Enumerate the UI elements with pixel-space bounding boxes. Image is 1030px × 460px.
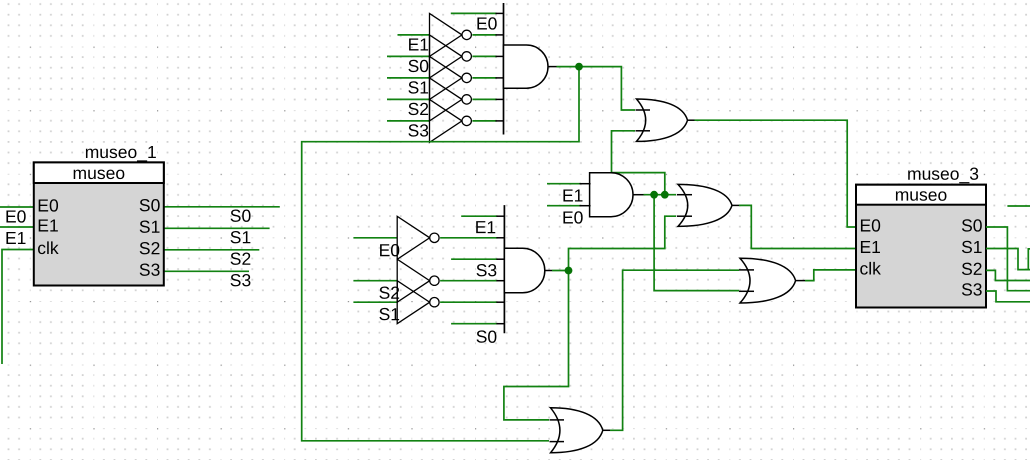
wire J1 to OR1 top input — [579, 67, 635, 110]
wire inverter output to U1 at y=34.9 — [472, 34, 496, 36]
wire S2 from museo_1 — [164, 249, 259, 251]
svg-text:S3: S3 — [408, 121, 429, 141]
wire S0 from museo_3 — [986, 227, 1030, 291]
svg-text:S3: S3 — [476, 260, 497, 280]
wire inverter N7 output to U2 — [440, 280, 497, 282]
inverter N1 — [430, 13, 463, 56]
svg-text:E0: E0 — [859, 216, 881, 236]
svg-text:E1: E1 — [408, 35, 429, 55]
svg-text:E1: E1 — [562, 186, 583, 206]
svg-text:S3: S3 — [961, 279, 982, 299]
svg-text:S2: S2 — [961, 259, 982, 279]
wire J1 down-left-down to OR4 bottom input — [302, 67, 579, 441]
and-gate U2 (6-input) — [496, 205, 552, 333]
wire S0 from museo_1 — [164, 206, 280, 208]
svg-text:S3: S3 — [139, 260, 160, 280]
wire net at top right edge — [1007, 205, 1030, 207]
wire S0 to inverter N2 — [387, 55, 430, 57]
wire S3 to inverter N5 — [387, 120, 430, 122]
wire junction J2 down to OR3 bottom input — [654, 195, 739, 291]
junction J1 — [575, 63, 583, 71]
wire right edge net down — [1028, 249, 1030, 270]
svg-text:E1: E1 — [475, 217, 496, 237]
wire E0 to inverter N6 — [353, 237, 397, 239]
svg-text:S1: S1 — [230, 227, 251, 247]
wire J5 up to OR2 bottom input — [569, 216, 677, 270]
svg-text:museo: museo — [895, 185, 948, 205]
wire E0 stub to U3 — [547, 205, 581, 207]
svg-text:S0: S0 — [476, 327, 498, 347]
svg-text:clk: clk — [37, 238, 59, 258]
wire S3 from museo_3 — [986, 291, 1030, 302]
wire S0 stub to U2 — [451, 323, 497, 325]
wire U1 output to junction J1 — [557, 66, 580, 68]
svg-text:museo_1: museo_1 — [85, 142, 157, 163]
or-gate OR3 — [739, 258, 805, 303]
wire S3 stub to U2 — [451, 258, 497, 260]
wire inverter output to U1 at y=56.4 — [472, 55, 496, 57]
and-gate U1 (6-input) — [496, 3, 557, 135]
wire J5 down to OR4 top input — [504, 271, 569, 420]
wire clk input to museo_1 — [2, 250, 34, 365]
svg-text:S0: S0 — [139, 195, 161, 215]
wire S3 from museo_1 — [164, 270, 249, 272]
block museo_3 — [856, 164, 986, 308]
inverter N7 — [397, 259, 430, 302]
svg-text:S2: S2 — [139, 238, 160, 258]
svg-text:E0: E0 — [5, 207, 27, 227]
inverter N6 — [397, 216, 430, 259]
wire S2 from museo_3 — [986, 270, 1030, 280]
junction J2 — [650, 191, 658, 199]
svg-text:clk: clk — [859, 259, 881, 279]
wire OR1 bottom input from junction J3 — [612, 131, 665, 195]
inverter N2 — [430, 35, 463, 78]
svg-text:E1: E1 — [5, 228, 26, 248]
svg-text:E0: E0 — [476, 14, 498, 34]
inverter N8 — [397, 281, 430, 324]
wire E1 to inverter N1 — [398, 34, 430, 36]
block museo_1 — [34, 142, 164, 286]
wire E1 input to museo_1 — [0, 226, 34, 228]
wire E0 stub to U1 pin 1 — [451, 12, 497, 14]
wire S1 to inverter N3 — [387, 77, 430, 79]
wire inverter output to U1 at y=77.9 — [472, 77, 496, 79]
wire S2 to inverter N4 — [387, 98, 430, 100]
wire inverter output to U1 at y=99.4 — [472, 98, 496, 100]
junction J3 — [661, 191, 669, 199]
wire U2 output to junction J5 — [552, 270, 569, 272]
svg-text:E0: E0 — [562, 208, 584, 228]
svg-text:S0: S0 — [961, 215, 983, 235]
svg-text:S1: S1 — [961, 237, 982, 257]
wire OR1 output to museo_3 E0 — [695, 120, 857, 227]
wire inverter N6 output to U2 — [440, 237, 497, 239]
wire E1 stub to U3 — [547, 183, 581, 185]
svg-text:E1: E1 — [37, 216, 58, 236]
svg-text:S1: S1 — [408, 78, 429, 98]
svg-text:S3: S3 — [230, 270, 251, 290]
svg-text:S2: S2 — [408, 99, 429, 119]
wire S2 to inverter N7 — [353, 280, 397, 282]
inverter N4 — [430, 78, 463, 121]
inverter N3 — [430, 56, 463, 99]
wire inverter output to U1 at y=120.9 — [472, 120, 496, 122]
or-gate OR1 — [636, 99, 695, 141]
wire OR4 output up to OR3 top input — [610, 270, 739, 430]
wire inverter N8 output to U2 — [440, 301, 497, 303]
svg-text:S0: S0 — [408, 56, 430, 76]
svg-text:museo_3: museo_3 — [907, 164, 979, 185]
svg-text:S1: S1 — [139, 217, 160, 237]
svg-text:S0: S0 — [230, 206, 252, 226]
wire OR3 output to museo_3 clk — [805, 270, 856, 281]
wire E0 input to museo_1 — [0, 206, 34, 208]
wire U3 output to OR2 top input — [644, 194, 677, 196]
inverter N5 — [430, 99, 463, 142]
or-gate OR2 — [677, 184, 739, 226]
svg-text:S2: S2 — [230, 249, 251, 269]
and-gate U3 — [580, 173, 644, 217]
svg-text:E0: E0 — [37, 196, 59, 216]
wire OR2 output to museo_3 E1 — [739, 205, 856, 248]
wire S1 to inverter N8 — [353, 301, 397, 303]
wire E1 stub to U2 — [461, 215, 497, 217]
svg-text:E1: E1 — [859, 237, 880, 257]
junction J5 — [565, 267, 573, 275]
svg-text:museo: museo — [73, 163, 126, 183]
wire S1 from museo_1 — [164, 227, 270, 229]
wire S1 from museo_3 — [986, 249, 1030, 270]
or-gate OR4 — [550, 408, 611, 453]
